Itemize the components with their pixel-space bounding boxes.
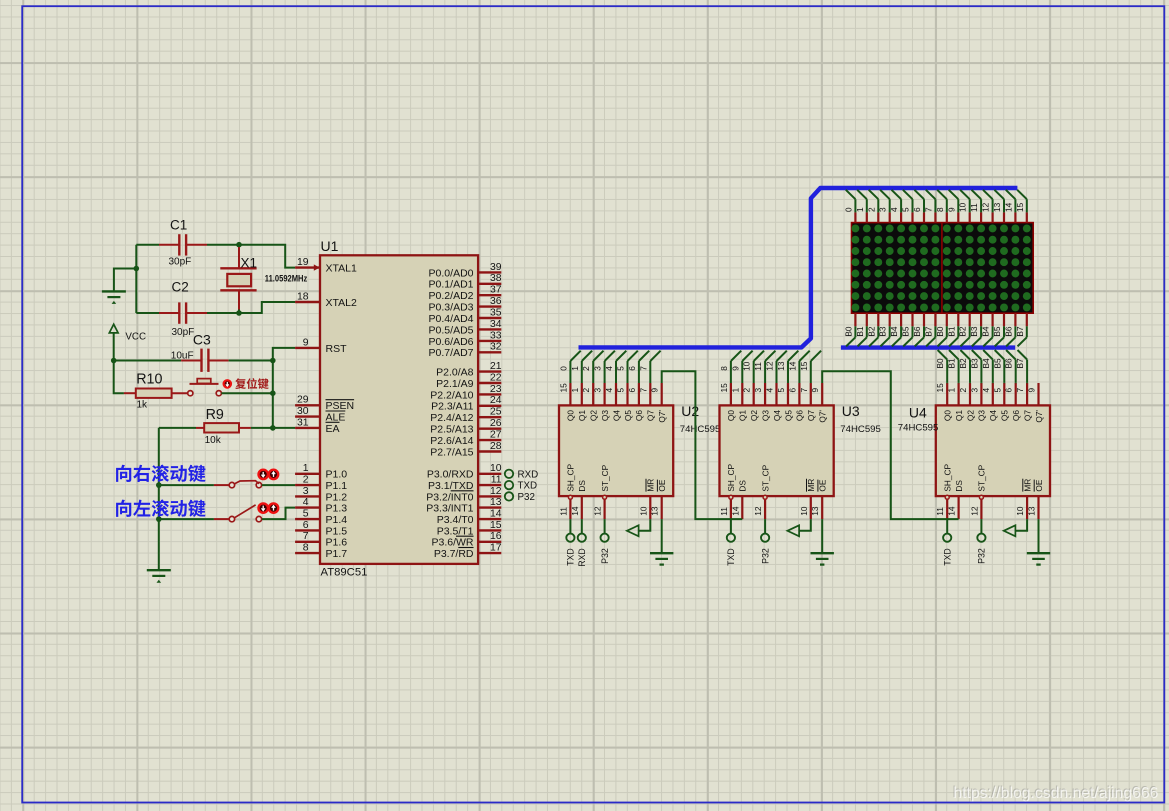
node: [134, 266, 140, 272]
svg-text:RXD: RXD: [518, 469, 539, 480]
svg-text:P1.7: P1.7: [326, 548, 348, 560]
svg-text:Q6: Q6: [634, 410, 644, 421]
svg-text:P3.7/RD: P3.7/RD: [434, 548, 474, 560]
svg-text:31: 31: [297, 417, 309, 428]
power arrow: [787, 519, 810, 536]
svg-text:PSEN: PSEN: [326, 400, 355, 412]
U3 pin 15 Q0: [719, 383, 736, 421]
svg-text:7: 7: [923, 207, 933, 212]
svg-text:30pF: 30pF: [172, 327, 195, 338]
svg-text:B4: B4: [889, 326, 899, 337]
svg-text:Q0: Q0: [566, 410, 576, 421]
U3 pin 12 ST_CP: [753, 464, 770, 519]
U1 pin 2 P1.1: [295, 475, 347, 493]
wire net 10: [742, 351, 764, 383]
svg-text:Q7': Q7': [657, 410, 667, 423]
U4 pin 4 Q4: [981, 383, 998, 421]
node: [111, 358, 117, 364]
wire net B7: [1015, 350, 1027, 383]
svg-text:6: 6: [627, 366, 637, 371]
svg-text:7: 7: [799, 388, 809, 393]
terminal RXD: [577, 519, 587, 567]
U2 pin 12 ST_CP: [593, 464, 610, 519]
svg-text:1: 1: [947, 388, 957, 393]
svg-text:30pF: 30pF: [169, 257, 192, 268]
svg-text:Q2: Q2: [965, 410, 975, 421]
svg-text:DS: DS: [577, 480, 587, 492]
svg-text:18: 18: [297, 291, 309, 302]
matrix pin net 13: [992, 190, 1004, 223]
U1 pin 34 P0.5/AD5: [429, 319, 502, 337]
svg-text:TXD: TXD: [518, 481, 538, 492]
svg-text:8: 8: [935, 207, 945, 212]
U1 pin 21 P2.0/A8: [436, 361, 502, 379]
U2 pin 13 OE: [650, 479, 667, 519]
U1 pin 14 P3.4/T0: [437, 509, 502, 527]
U4 pin 15 Q0: [935, 383, 952, 421]
svg-text:34: 34: [490, 319, 502, 330]
svg-text:P2.0/A8: P2.0/A8: [436, 367, 474, 379]
power arrow: [627, 519, 650, 536]
svg-text:13: 13: [992, 202, 1002, 212]
svg-text:13: 13: [810, 506, 820, 516]
svg-text:5: 5: [992, 388, 1002, 393]
wire: [221, 392, 272, 394]
svg-text:21: 21: [490, 361, 502, 372]
svg-text:P32: P32: [600, 548, 610, 564]
svg-text:C1: C1: [170, 218, 187, 233]
U3 pin 7 Q7: [799, 383, 816, 421]
U3 pin 11 SH_CP: [719, 463, 736, 519]
svg-text:P0.0/AD0: P0.0/AD0: [429, 267, 474, 279]
svg-text:9: 9: [1027, 388, 1037, 393]
U1 pin 19 clock marker: [314, 264, 320, 270]
svg-text:TXD: TXD: [566, 548, 576, 566]
watermark: [952, 784, 1158, 802]
U3 pin 14 DS: [730, 480, 747, 519]
svg-text:ST_CP: ST_CP: [977, 464, 987, 491]
svg-text:37: 37: [490, 285, 502, 296]
capacitor C2: [159, 280, 207, 338]
op-amp U1 AT89C51 body: [320, 238, 478, 579]
wire: [114, 269, 136, 291]
wire: [273, 348, 295, 428]
U1 pin 38 P0.1/AD1: [429, 273, 502, 291]
svg-text:10uF: 10uF: [171, 350, 194, 361]
svg-text:36: 36: [490, 296, 502, 307]
U4 pin 12 ST_CP: [969, 464, 986, 519]
svg-text:9: 9: [303, 337, 309, 348]
svg-text:B2: B2: [958, 326, 968, 337]
svg-text:12: 12: [765, 361, 775, 371]
svg-text:13: 13: [490, 497, 502, 508]
svg-text:P2.3/A11: P2.3/A11: [431, 401, 474, 413]
U1 pin 11 P3.1/TXD: [428, 475, 502, 493]
svg-text:Q3: Q3: [600, 410, 610, 421]
U1 pin 31 EA: [295, 417, 339, 435]
wire net 1: [570, 351, 592, 383]
wire net 7: [638, 351, 660, 383]
U1 pin 33 P0.6/AD6: [429, 330, 502, 348]
svg-text:Q5: Q5: [1000, 410, 1010, 421]
U4 pin 13 OE: [1027, 479, 1044, 519]
svg-text:OE: OE: [1034, 479, 1044, 491]
svg-text:B1: B1: [855, 326, 865, 337]
svg-text:6: 6: [303, 520, 309, 531]
svg-text:P0.3/AD3: P0.3/AD3: [429, 302, 474, 314]
wire net B2: [958, 350, 970, 383]
svg-text:12: 12: [969, 506, 979, 516]
wire: [159, 484, 214, 486]
svg-text:B4: B4: [981, 326, 991, 337]
wire: [251, 427, 295, 429]
svg-text:U1: U1: [321, 238, 339, 254]
U1 pin 17 P3.7/RD: [434, 543, 502, 561]
svg-text:10: 10: [1015, 506, 1025, 516]
svg-text:ST_CP: ST_CP: [600, 464, 610, 491]
crystal X1: [220, 247, 307, 310]
U2 pin 5 Q5: [616, 383, 633, 421]
U3 pin 6 Q6: [787, 383, 804, 421]
svg-text:4: 4: [303, 497, 309, 508]
wire: [207, 312, 239, 314]
svg-text:Q4: Q4: [988, 410, 998, 421]
svg-text:14: 14: [1003, 202, 1013, 212]
svg-text:Q5: Q5: [783, 410, 793, 421]
svg-text:B1: B1: [947, 358, 957, 369]
U4 pin 11 SH_CP: [935, 463, 952, 519]
U1 pin 30 ALE: [295, 406, 345, 424]
wire net 5: [616, 351, 638, 383]
svg-text:11: 11: [969, 203, 979, 212]
svg-text:TXD: TXD: [726, 548, 736, 566]
U4 pin 2 Q2: [958, 383, 975, 421]
svg-text:38: 38: [490, 273, 502, 284]
U4 pin 6 Q6: [1004, 383, 1021, 421]
matrix pin net B6: [1003, 313, 1015, 346]
svg-text:Q5: Q5: [623, 410, 633, 421]
svg-text:Q4: Q4: [772, 410, 782, 421]
U4 pin 5 Q5: [992, 383, 1009, 421]
svg-text:1: 1: [570, 388, 580, 393]
svg-text:Q0: Q0: [726, 410, 736, 421]
U1 pin 26 P2.5/A13: [430, 418, 501, 436]
svg-text:B7: B7: [1015, 358, 1025, 369]
svg-text:B7: B7: [1015, 326, 1025, 337]
wire net 14: [787, 351, 809, 383]
ground: [102, 291, 126, 304]
U3 pin 4 Q4: [765, 383, 782, 421]
svg-text:9: 9: [810, 388, 820, 393]
svg-text:2: 2: [866, 207, 876, 212]
svg-text:TXD: TXD: [943, 548, 953, 566]
matrix pin net B3: [878, 313, 890, 346]
svg-text:P1.6: P1.6: [326, 537, 348, 549]
U1 pin 1 P1.0: [295, 463, 347, 481]
matrix pin net B1: [855, 313, 867, 346]
svg-text:35: 35: [490, 307, 502, 318]
svg-text:8: 8: [719, 366, 729, 371]
ground: [650, 519, 673, 565]
svg-text:P1.4: P1.4: [326, 514, 348, 526]
svg-text:7: 7: [638, 366, 648, 371]
svg-text:1: 1: [855, 207, 865, 212]
svg-text:1: 1: [303, 463, 309, 474]
matrix pin net B0: [843, 313, 855, 346]
svg-text:12: 12: [490, 486, 502, 497]
svg-text:Q7: Q7: [1022, 410, 1032, 421]
U2 pin 14 DS: [570, 480, 587, 519]
U4 pin 7 Q7: [1015, 383, 1032, 421]
svg-text:P3.1/TXD: P3.1/TXD: [428, 480, 474, 492]
U1 pin 28 P2.7/A15: [430, 441, 501, 459]
svg-text:26: 26: [490, 418, 502, 429]
wire net B4: [981, 350, 993, 383]
wire: [136, 312, 159, 314]
matrix pin net 7: [923, 190, 935, 223]
svg-text:30: 30: [297, 406, 309, 417]
svg-text:AT89C51: AT89C51: [321, 567, 368, 579]
U2 pin 7 Q7: [638, 383, 655, 421]
power VCC: [109, 324, 146, 360]
svg-text:ST_CP: ST_CP: [760, 464, 770, 491]
svg-text:B5: B5: [992, 326, 1002, 337]
U2 pin 15 Q0: [558, 383, 575, 421]
svg-text:74HC595: 74HC595: [898, 423, 939, 434]
svg-text:3: 3: [878, 207, 888, 212]
wire net B1: [947, 350, 959, 383]
svg-text:11: 11: [558, 507, 568, 516]
wire: [238, 310, 240, 314]
svg-text:33: 33: [490, 330, 502, 341]
U3 pin 10 MR: [799, 479, 816, 519]
svg-text:5: 5: [303, 509, 309, 520]
U1 pin 19 XTAL1: [295, 257, 357, 275]
U1 pin 5 P1.4: [295, 509, 347, 527]
matrix pin net B7: [1015, 313, 1027, 346]
svg-text:P0.1/AD1: P0.1/AD1: [429, 279, 474, 291]
node: [270, 425, 276, 431]
wire net 6: [627, 351, 649, 383]
wire: [207, 245, 295, 268]
wire: [158, 428, 160, 570]
svg-text:SH_CP: SH_CP: [726, 463, 736, 491]
U4 pin 1 Q1: [947, 383, 964, 421]
svg-text:P3.5/T1: P3.5/T1: [437, 525, 474, 537]
svg-text:14: 14: [490, 509, 502, 520]
svg-text:3: 3: [593, 366, 603, 371]
U1 pin 27 P2.6/A14: [430, 430, 501, 448]
svg-text:2: 2: [958, 388, 968, 393]
U1 pin 12 P3.2/INT0: [426, 486, 501, 504]
svg-text:2: 2: [303, 475, 309, 486]
svg-text:RXD: RXD: [577, 548, 587, 567]
U1 pin 32 P0.7/AD7: [429, 342, 502, 360]
U1 pin 3 P1.2: [295, 486, 347, 504]
switch icon up: [269, 503, 278, 512]
svg-text:https://blog.csdn.net/ajing666: https://blog.csdn.net/ajing666: [953, 785, 1158, 802]
svg-text:B3: B3: [969, 358, 979, 369]
matrix pin net 10: [958, 190, 970, 223]
node: [156, 516, 162, 522]
svg-text:74HC595: 74HC595: [840, 424, 881, 435]
wire: [262, 508, 295, 519]
svg-text:XTAL2: XTAL2: [326, 297, 357, 309]
matrix pin net B2: [866, 313, 878, 346]
U2 pin 11 SH_CP: [558, 463, 575, 519]
svg-text:2: 2: [581, 366, 591, 371]
svg-text:B0: B0: [843, 326, 853, 337]
svg-text:11: 11: [491, 475, 502, 486]
terminal RXD: [505, 469, 538, 480]
svg-text:Q0: Q0: [943, 410, 953, 421]
svg-text:RST: RST: [326, 343, 348, 355]
terminal TXD: [566, 519, 576, 566]
svg-text:P0.6/AD6: P0.6/AD6: [429, 336, 474, 348]
svg-text:4: 4: [889, 207, 899, 212]
svg-text:P3.2/INT0: P3.2/INT0: [426, 491, 473, 503]
svg-text:16: 16: [490, 531, 502, 542]
svg-text:17: 17: [490, 543, 502, 554]
svg-text:SH_CP: SH_CP: [566, 463, 576, 491]
svg-text:B3: B3: [969, 326, 979, 337]
svg-text:24: 24: [490, 395, 502, 406]
svg-text:1: 1: [570, 366, 580, 371]
svg-text:1: 1: [730, 388, 740, 393]
svg-text:B5: B5: [992, 358, 1002, 369]
U1 pin 13 P3.3/INT1: [426, 497, 501, 515]
matrix pin net 12: [981, 190, 993, 223]
svg-text:EA: EA: [326, 423, 340, 435]
wire U3.Q7' to U4.DS: [822, 371, 958, 519]
svg-text:9: 9: [650, 388, 660, 393]
matrix pin net B5: [992, 313, 1004, 346]
node: [270, 390, 276, 396]
svg-text:U3: U3: [842, 403, 860, 419]
wire: [114, 361, 124, 394]
matrix pin net 5: [901, 190, 913, 223]
terminal P32: [977, 519, 987, 564]
capacitor C3: [171, 331, 229, 372]
matrix pin net 4: [889, 190, 901, 223]
ground: [811, 519, 834, 565]
svg-text:4: 4: [765, 388, 775, 393]
svg-text:P3.6/WR: P3.6/WR: [431, 537, 473, 549]
U1 pin 4 P1.3: [295, 497, 347, 515]
svg-text:DS: DS: [738, 480, 748, 492]
svg-text:4: 4: [604, 366, 614, 371]
svg-text:P2.7/A15: P2.7/A15: [430, 446, 473, 458]
wire: [262, 484, 295, 486]
U4 pin 14 DS: [947, 480, 964, 519]
U1 pin 23 P2.2/A10: [430, 384, 501, 402]
svg-text:25: 25: [490, 407, 502, 418]
svg-text:11.0592MHz: 11.0592MHz: [265, 274, 308, 285]
matrix pin net 8: [935, 190, 947, 223]
U1 pin 36 P0.3/AD3: [429, 296, 502, 314]
matrix pin net B3: [969, 313, 981, 346]
U1 pin 16 P3.6/WR: [431, 531, 501, 549]
svg-text:Q7': Q7': [818, 410, 828, 423]
svg-text:Q7': Q7': [1034, 410, 1044, 423]
wire net B0: [935, 350, 947, 383]
svg-text:P1.5: P1.5: [326, 525, 348, 537]
svg-text:B6: B6: [1004, 358, 1014, 369]
svg-text:10: 10: [490, 463, 502, 474]
matrix pin net B0: [935, 313, 947, 346]
svg-text:29: 29: [297, 395, 309, 406]
U2 pin 4 Q4: [604, 383, 621, 421]
svg-text:P3.0/RXD: P3.0/RXD: [427, 469, 474, 481]
svg-text:Q6: Q6: [795, 410, 805, 421]
bus: [841, 345, 1015, 349]
svg-text:11: 11: [935, 507, 945, 516]
svg-text:U4: U4: [909, 405, 927, 421]
switch reset button: [188, 379, 222, 396]
svg-text:23: 23: [490, 384, 502, 395]
U2 pin 9 Q7': [650, 383, 667, 423]
svg-text:R9: R9: [206, 407, 224, 423]
svg-text:39: 39: [490, 262, 502, 273]
label 复位键: [235, 378, 268, 389]
svg-text:B1: B1: [946, 326, 956, 337]
matrix pin net 14: [1003, 190, 1015, 223]
svg-text:MR: MR: [1022, 479, 1032, 492]
svg-text:0: 0: [558, 366, 568, 371]
terminal TXD: [943, 519, 953, 566]
svg-text:B3: B3: [878, 326, 888, 337]
svg-text:0: 0: [843, 207, 853, 212]
U1 pin 8 P1.7: [295, 543, 347, 561]
svg-text:C2: C2: [172, 280, 189, 295]
svg-text:9: 9: [730, 366, 740, 371]
svg-text:3: 3: [303, 486, 309, 497]
wire: [239, 302, 295, 313]
matrix pin net 9: [946, 190, 958, 223]
U4 pin 9 Q7': [1027, 383, 1044, 423]
ground: [1027, 519, 1050, 565]
svg-text:14: 14: [730, 506, 740, 516]
svg-text:15: 15: [558, 383, 568, 393]
resistor R9: [196, 407, 251, 446]
svg-text:13: 13: [1027, 506, 1037, 516]
svg-text:4: 4: [981, 388, 991, 393]
svg-text:6: 6: [1004, 388, 1014, 393]
svg-text:B6: B6: [1003, 326, 1013, 337]
svg-text:B6: B6: [912, 326, 922, 337]
svg-text:Q1: Q1: [577, 410, 587, 421]
wire net 9: [730, 351, 752, 383]
svg-text:10: 10: [958, 202, 968, 212]
wire: [136, 244, 159, 246]
U1 pin 37 P0.2/AD2: [429, 285, 502, 303]
terminal P32: [505, 492, 535, 503]
wire net 4: [604, 351, 626, 383]
svg-text:P0.5/AD5: P0.5/AD5: [429, 324, 474, 336]
svg-text:32: 32: [490, 342, 502, 353]
U1 pin 39 P0.0/AD0: [429, 262, 502, 280]
wire net B6: [1004, 350, 1016, 383]
label 向左滚动键: [116, 499, 205, 517]
U1 pin 29 PSEN: [295, 395, 354, 413]
U3 pin 1 Q1: [730, 383, 747, 421]
svg-text:B2: B2: [866, 326, 876, 337]
svg-text:13: 13: [776, 361, 786, 371]
U3 pin 2 Q2: [742, 383, 759, 421]
svg-text:8: 8: [303, 543, 309, 554]
svg-text:OE: OE: [657, 479, 667, 491]
svg-text:4: 4: [604, 388, 614, 393]
